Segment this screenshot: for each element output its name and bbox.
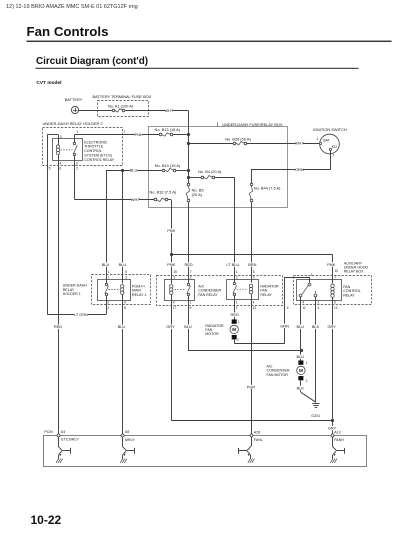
svg-text:RELAY: RELAY xyxy=(343,294,355,298)
svg-text:4: 4 xyxy=(303,301,305,305)
bus segment xyxy=(188,135,190,144)
wire RED radiator contact to radiator fan motor xyxy=(234,296,236,320)
svg-text:6: 6 xyxy=(124,306,126,310)
svg-text:GRY: GRY xyxy=(328,324,337,329)
PGM-FI relay mechanical link xyxy=(109,289,120,291)
wire RED fuse B5 to A/C condenser fan relay contact xyxy=(188,202,190,283)
fan control relay coil xyxy=(331,284,334,287)
svg-text:10-22: 10-22 xyxy=(31,513,62,527)
relay box outline xyxy=(157,276,283,306)
wire ETCS contact bottom to WHT B32 xyxy=(74,156,76,200)
wire BLU fan control to A/C condenser fan motor xyxy=(300,297,302,360)
ETCS control relay xyxy=(53,139,83,161)
svg-text:5: 5 xyxy=(253,270,255,274)
wire WHT from ETCS relay to fuse B32 xyxy=(75,199,155,201)
svg-text:9: 9 xyxy=(190,306,192,310)
svg-text:WHT: WHT xyxy=(295,141,304,146)
svg-text:FAN MOTOR: FAN MOTOR xyxy=(267,373,289,377)
fuse B26 50A xyxy=(188,143,234,145)
svg-text:6: 6 xyxy=(60,166,62,170)
svg-text:3: 3 xyxy=(253,275,255,279)
junction PNK branch xyxy=(170,253,173,256)
svg-text:BLU: BLU xyxy=(118,324,126,329)
svg-text:BLU: BLU xyxy=(130,167,138,172)
svg-text:BLK: BLK xyxy=(312,324,320,329)
svg-text:RED: RED xyxy=(230,312,238,317)
svg-text:4: 4 xyxy=(253,301,255,305)
transistor MRLY driver xyxy=(122,437,124,446)
svg-text:BLU: BLU xyxy=(102,262,110,267)
svg-text:1: 1 xyxy=(124,129,126,133)
svg-text:Circuit Diagram (cont'd): Circuit Diagram (cont'd) xyxy=(36,56,148,67)
svg-text:2: 2 xyxy=(76,161,78,165)
svg-text:17: 17 xyxy=(173,306,177,310)
svg-text:PNK: PNK xyxy=(135,132,143,137)
bus segment xyxy=(188,170,190,184)
svg-text:5: 5 xyxy=(49,166,51,170)
svg-text:RELAY: RELAY xyxy=(260,293,272,297)
svg-text:2: 2 xyxy=(190,275,192,279)
svg-text:3: 3 xyxy=(125,275,127,279)
ETCS relay coil xyxy=(56,145,59,148)
svg-text:2: 2 xyxy=(107,306,109,310)
wire BLK fan control relay to ground xyxy=(315,297,317,402)
junction fan link xyxy=(300,349,303,352)
svg-text:No. B4 (20 A): No. B4 (20 A) xyxy=(198,169,222,174)
wire GRY link xyxy=(171,420,332,422)
svg-text:3: 3 xyxy=(173,275,175,279)
svg-text:FAN: FAN xyxy=(343,285,350,289)
transistor FANL driver xyxy=(251,437,253,446)
radiator fan motor xyxy=(232,319,237,323)
wire battery to fuse box xyxy=(79,110,113,112)
svg-text:2: 2 xyxy=(318,301,320,305)
wire BRN fuse B44 to radiator fan relay coil xyxy=(251,202,253,283)
svg-text:11: 11 xyxy=(303,306,307,310)
svg-text:BLU: BLU xyxy=(297,354,305,359)
svg-text:BATTERY TERMINAL FUSE BOX: BATTERY TERMINAL FUSE BOX xyxy=(93,94,152,99)
svg-text:RED: RED xyxy=(54,324,62,329)
wire RED ETCS coil to PCM A4 xyxy=(58,155,60,436)
svg-text:CONDENSER: CONDENSER xyxy=(198,289,221,293)
svg-text:HOLDER 1: HOLDER 1 xyxy=(63,292,81,296)
radiator fan relay xyxy=(227,280,259,300)
svg-text:ORN: ORN xyxy=(295,167,304,172)
svg-text:BLU: BLU xyxy=(297,324,305,329)
fuse B44 7.5A xyxy=(250,183,253,186)
svg-text:PUR: PUR xyxy=(247,384,255,389)
svg-text:WHT: WHT xyxy=(164,108,173,113)
wire PUR radiator coil to PCM FANL xyxy=(251,294,253,436)
svg-text:3: 3 xyxy=(60,135,62,139)
svg-text:BAT: BAT xyxy=(323,138,329,142)
svg-text:FAN: FAN xyxy=(260,289,267,293)
terminal A26 FANL xyxy=(250,434,253,437)
svg-text:MOTOR: MOTOR xyxy=(205,332,219,336)
wire LT GRN to ETCS coil leg xyxy=(47,314,106,316)
svg-text:1: 1 xyxy=(236,270,238,274)
svg-text:ELECTRONIC: ELECTRONIC xyxy=(84,140,108,144)
battery xyxy=(71,106,78,113)
svg-text:CONTROL: CONTROL xyxy=(343,289,361,293)
svg-text:PGM-FI: PGM-FI xyxy=(132,284,145,288)
radiator relay coil xyxy=(249,284,252,287)
svg-text:Fan Controls: Fan Controls xyxy=(27,24,109,39)
svg-text:UNDER-DASH RELAY HOLDER 2: UNDER-DASH RELAY HOLDER 2 xyxy=(43,121,103,126)
svg-text:A4: A4 xyxy=(61,430,65,434)
A/C condenser fan relay xyxy=(165,280,195,301)
A/C condenser fan motor xyxy=(298,360,303,364)
svg-text:1: 1 xyxy=(190,301,192,305)
svg-text:2: 2 xyxy=(76,166,78,170)
svg-text:IG2: IG2 xyxy=(332,145,338,149)
svg-text:CONTROL RELAY: CONTROL RELAY xyxy=(84,158,115,162)
svg-text:RELAY: RELAY xyxy=(63,288,75,292)
svg-text:1: 1 xyxy=(76,130,78,134)
svg-text:1: 1 xyxy=(108,270,110,274)
svg-text:WHT: WHT xyxy=(131,197,140,202)
svg-text:4: 4 xyxy=(60,161,62,165)
wire PNK from ETCS relay to fuse B13 xyxy=(123,134,160,136)
wire bus drop to fuse box xyxy=(188,110,190,134)
svg-text:PNK: PNK xyxy=(327,262,335,267)
svg-text:BLU: BLU xyxy=(184,324,192,329)
junction bus-B4 xyxy=(187,176,190,179)
title rule xyxy=(27,41,392,42)
svg-text:2: 2 xyxy=(236,275,238,279)
svg-text:10: 10 xyxy=(335,269,339,273)
wire PNK to A/C condenser fan relay coil xyxy=(171,255,173,284)
svg-text:5: 5 xyxy=(125,270,127,274)
ETCS relay mechanical link xyxy=(61,149,73,151)
PCM box xyxy=(44,436,367,467)
svg-text:PNK: PNK xyxy=(167,262,175,267)
wire ORN from ignition switch to fuse B44 xyxy=(330,151,332,170)
svg-text:CVT model: CVT model xyxy=(36,80,61,86)
svg-text:FANL: FANL xyxy=(254,438,263,442)
wire BLK A/C motor to ground xyxy=(300,381,302,393)
svg-text:RADIATOR: RADIATOR xyxy=(260,284,279,288)
svg-text:UNDER-DASH: UNDER-DASH xyxy=(63,283,87,287)
svg-text:2: 2 xyxy=(236,306,238,310)
A/C relay contact xyxy=(187,283,189,285)
svg-text:G201: G201 xyxy=(311,414,320,418)
wire GRN fan control common to radiator fan motor xyxy=(309,277,311,283)
PGM-FI relay coil xyxy=(121,285,124,288)
wire GRY A/C coil to FANH xyxy=(171,295,173,421)
svg-text:7: 7 xyxy=(332,154,334,158)
svg-text:2: 2 xyxy=(237,338,239,342)
svg-text:RED: RED xyxy=(184,262,192,267)
svg-text:MRLY: MRLY xyxy=(125,438,135,442)
wire WHT to ignition switch xyxy=(246,143,319,145)
svg-text:4: 4 xyxy=(287,306,289,310)
ETCS relay contact xyxy=(73,142,75,144)
wire fan series link BLU xyxy=(188,350,301,352)
svg-text:No. B10 (15 A): No. B10 (15 A) xyxy=(155,163,181,168)
svg-text:12) 12-19 BRIO AMAZE MMC SM-E: 12) 12-19 BRIO AMAZE MMC SM-E 01 62TG12F… xyxy=(6,4,138,10)
terminal A4 xyxy=(57,434,60,437)
svg-text:No. B13 (15 A): No. B13 (15 A) xyxy=(155,127,181,132)
terminal A9 MRLY xyxy=(121,434,124,437)
svg-text:7: 7 xyxy=(190,270,192,274)
svg-text:RELAY 1: RELAY 1 xyxy=(132,293,146,297)
fuse B5 20A xyxy=(187,183,190,186)
transistor FANH driver xyxy=(332,437,334,446)
wire GRY fan control coil to FANH xyxy=(332,298,334,436)
svg-text:GRY: GRY xyxy=(166,324,175,329)
svg-text:BLU: BLU xyxy=(119,262,127,267)
wire BLU A/C contact to fan link xyxy=(188,296,190,351)
radiator relay contact xyxy=(233,282,235,284)
svg-text:CONTROL: CONTROL xyxy=(84,149,102,153)
svg-text:4: 4 xyxy=(124,301,126,305)
PGM-FI main relay 1 xyxy=(98,280,131,301)
svg-text:1: 1 xyxy=(306,361,308,365)
svg-text:M: M xyxy=(299,368,303,373)
junction bus-B13 xyxy=(187,133,190,136)
svg-text:MAIN: MAIN xyxy=(132,289,141,293)
svg-text:1: 1 xyxy=(108,275,110,279)
svg-text:No. A1 (100 A): No. A1 (100 A) xyxy=(108,104,134,109)
svg-text:BATTERY: BATTERY xyxy=(65,97,83,102)
terminal A13 FANH xyxy=(331,434,334,437)
svg-text:No. B26 (50 A): No. B26 (50 A) xyxy=(225,136,251,141)
svg-text:LT GRN: LT GRN xyxy=(74,312,88,317)
svg-text:SYSTEM (ETCS): SYSTEM (ETCS) xyxy=(84,154,112,158)
transistor ETCS/RLY driver xyxy=(58,437,60,446)
svg-text:1: 1 xyxy=(238,320,240,324)
svg-text:BRN: BRN xyxy=(248,262,256,267)
wire BLU PGM-FI coil to PCM MRLY xyxy=(122,295,124,436)
svg-text:No. B44 (7.5 A): No. B44 (7.5 A) xyxy=(254,186,281,191)
radiator relay mechanical link xyxy=(237,288,248,290)
junction bus-B10 xyxy=(187,169,190,172)
junction BLU branch xyxy=(121,169,124,172)
junction GRY xyxy=(331,419,334,422)
svg-text:5: 5 xyxy=(334,301,336,305)
svg-text:3: 3 xyxy=(335,274,337,278)
svg-text:13: 13 xyxy=(334,306,338,310)
svg-text:3: 3 xyxy=(318,306,320,310)
wire radiator fan motor to fan control common xyxy=(234,339,236,343)
svg-text:THROTTLE: THROTTLE xyxy=(84,145,104,149)
svg-text:A/C: A/C xyxy=(198,284,204,288)
svg-text:1: 1 xyxy=(316,137,318,141)
svg-text:2: 2 xyxy=(306,379,308,383)
svg-text:RELAY BOX: RELAY BOX xyxy=(344,269,364,273)
svg-text:A26: A26 xyxy=(254,431,260,435)
svg-text:GRN: GRN xyxy=(280,323,289,328)
svg-text:M: M xyxy=(232,327,236,332)
svg-text:FAN RELAY: FAN RELAY xyxy=(198,293,218,297)
wire BLU to PGM-FI relay contact xyxy=(106,170,108,283)
svg-text:1: 1 xyxy=(311,273,313,277)
wire PGM-FI contact to LT GRN xyxy=(106,296,108,314)
wire BLU to PGM-FI relay coil xyxy=(122,170,124,283)
bus segment xyxy=(188,143,190,170)
svg-text:ETCS/RLY: ETCS/RLY xyxy=(61,438,79,442)
fan control relay contact xyxy=(308,283,311,286)
svg-text:A9: A9 xyxy=(125,430,129,434)
svg-text:FANH: FANH xyxy=(334,438,344,442)
wire PNK fuse B32 to relay coils xyxy=(171,200,173,255)
svg-text:12: 12 xyxy=(253,306,257,310)
svg-text:BLK: BLK xyxy=(297,385,305,390)
wire BLU from ETCS relay output to fuse B10 xyxy=(106,170,162,172)
svg-text:IGNITION SWITCH: IGNITION SWITCH xyxy=(313,127,347,132)
junction bus-B26 xyxy=(187,142,190,145)
subtitle rule xyxy=(36,68,359,69)
svg-text:2: 2 xyxy=(107,301,109,305)
PGM-FI relay contact xyxy=(105,283,107,285)
svg-text:4: 4 xyxy=(173,301,175,305)
ground G201 xyxy=(312,403,320,405)
fan control relay xyxy=(297,280,342,301)
svg-text:A13: A13 xyxy=(334,431,340,435)
svg-text:PNK: PNK xyxy=(167,228,175,233)
wire WHT battery feed xyxy=(125,110,148,112)
A/C relay coil xyxy=(170,285,173,288)
wire PNK branch to fan control relay xyxy=(171,254,332,256)
svg-text:(20 A): (20 A) xyxy=(192,192,203,197)
wire ETCS coil top to LT GRN leg xyxy=(58,135,60,145)
svg-text:LT BLU: LT BLU xyxy=(226,262,239,267)
svg-text:PCM: PCM xyxy=(44,430,52,434)
wire LT BLU drop to radiator fan relay xyxy=(234,177,236,282)
svg-text:15: 15 xyxy=(173,270,177,274)
svg-text:1: 1 xyxy=(236,301,238,305)
svg-text:No. B32 (7.5 A): No. B32 (7.5 A) xyxy=(149,189,176,194)
wire ETCS contact top to PNK xyxy=(74,135,76,143)
fuse B4 20A xyxy=(188,177,201,179)
A/C relay mechanical link xyxy=(175,289,186,291)
